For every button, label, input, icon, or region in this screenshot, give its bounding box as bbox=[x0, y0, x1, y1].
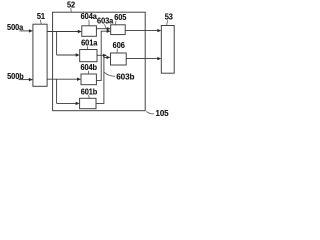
svg-text:603b: 603b bbox=[116, 73, 134, 82]
svg-text:606: 606 bbox=[113, 40, 126, 50]
svg-text:601a: 601a bbox=[81, 38, 98, 48]
wire input 500a bbox=[20, 30, 30, 32]
leader for label 604a bbox=[88, 20, 90, 26]
block 601a bbox=[80, 50, 97, 62]
svg-text:51: 51 bbox=[37, 12, 46, 22]
leader for label 606 bbox=[116, 49, 118, 53]
leader for label 605 bbox=[114, 21, 117, 25]
wire branch to 601b bbox=[57, 102, 77, 104]
block 51 bbox=[33, 24, 47, 86]
arrowhead into 604a bbox=[78, 30, 82, 33]
wire 51 to 604a bbox=[47, 31, 79, 33]
leader for label 604b bbox=[87, 71, 89, 74]
arrowhead into 601a bbox=[76, 53, 80, 56]
wire branch vertical to 601a bbox=[56, 32, 58, 56]
arrowhead into 51 top bbox=[29, 29, 33, 32]
svg-text:603a: 603a bbox=[97, 16, 114, 26]
arrowhead into 53 lower bbox=[157, 57, 161, 60]
arrowhead into 601b bbox=[76, 102, 80, 105]
leader for label 52 bbox=[70, 8, 72, 12]
outer block 52 (enclosure) bbox=[53, 12, 146, 111]
leader for label 603b bbox=[104, 72, 115, 76]
arrowhead into 604b bbox=[77, 78, 81, 81]
arrowhead into 53 upper bbox=[157, 29, 161, 32]
wire 601a to 606 bbox=[97, 54, 104, 56]
leader for label 603a bbox=[105, 24, 106, 28]
wire 601b to 606 routed up bbox=[96, 57, 107, 103]
leader for label 601b bbox=[88, 95, 91, 98]
arrowhead into 51 bottom bbox=[29, 78, 33, 81]
wire branch vertical to 601b bbox=[56, 79, 58, 103]
block 53 bbox=[161, 26, 174, 74]
arrowhead into 606 lower bbox=[107, 56, 111, 59]
wire 606 to 53 bbox=[126, 58, 158, 60]
arrowhead mid 601a to 606 bbox=[103, 54, 107, 57]
leader for label 601a bbox=[86, 46, 88, 49]
svg-text:52: 52 bbox=[67, 0, 76, 10]
wire 604a to 605 bbox=[96, 28, 107, 30]
wire input 500b bbox=[19, 79, 30, 81]
leader for label 51 bbox=[39, 20, 42, 24]
wire 605 to 53 bbox=[125, 30, 158, 32]
svg-text:105: 105 bbox=[155, 109, 169, 118]
wire 51 to 604b bbox=[47, 78, 78, 80]
wire branch to 601a bbox=[57, 54, 77, 56]
wire 604b to 605 routed up bbox=[96, 31, 107, 80]
block 604b bbox=[81, 74, 96, 85]
arrowhead into 605 lower bbox=[107, 30, 111, 33]
arrowhead into 605 upper bbox=[107, 27, 111, 30]
block 604a bbox=[82, 26, 97, 37]
block 605 bbox=[111, 25, 126, 35]
block 601b bbox=[80, 98, 96, 108]
block 606 bbox=[111, 53, 127, 65]
leader for label 53 bbox=[166, 20, 169, 25]
svg-text:53: 53 bbox=[165, 12, 174, 22]
svg-text:601b: 601b bbox=[81, 87, 98, 97]
svg-text:604b: 604b bbox=[80, 62, 97, 72]
leader for label 105 bbox=[146, 111, 154, 113]
